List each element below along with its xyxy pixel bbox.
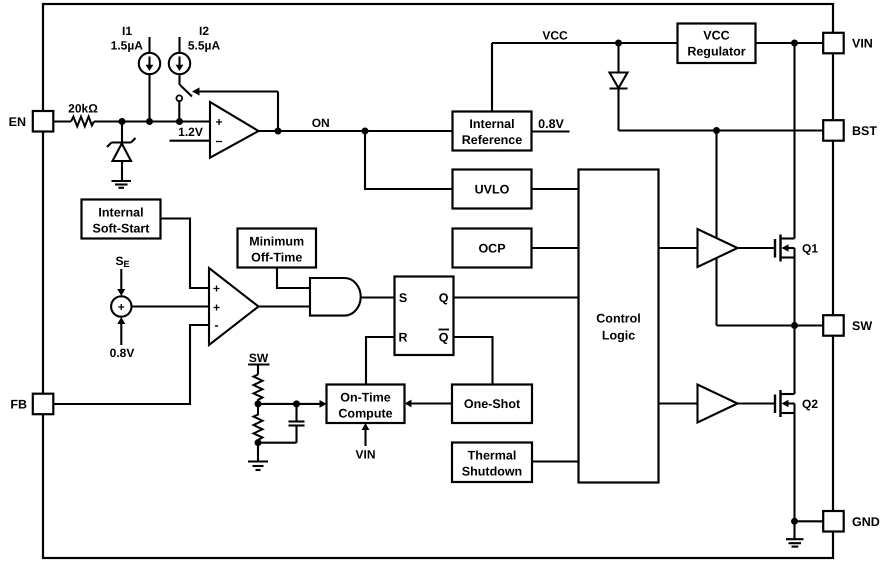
svg-text:+: + [213,301,220,315]
driver 1 [698,229,738,267]
svg-text:I2: I2 [199,24,209,38]
ground below zener [112,181,132,188]
svg-text:GND: GND [852,515,880,529]
svg-text:I1: I1 [122,24,132,38]
node VIN tap [791,40,798,47]
svg-text:Minimum: Minimum [249,235,304,249]
on-time compute box [327,385,405,424]
node divider bottom junction [255,439,262,446]
svg-text:Soft-Start: Soft-Start [93,222,151,236]
ground below Q2 [786,521,804,546]
wire latch Q to control logic [454,296,579,298]
resistor 20k [71,117,94,127]
wire BST net [619,129,825,131]
transistor Q1 [775,235,781,262]
wire 0.8V output stub [532,130,570,132]
wire control logic to driver 2 [659,402,698,404]
svg-text:Shutdown: Shutdown [462,465,522,479]
comparator EN (1.2V) [210,102,259,158]
resistor divider bottom [254,404,263,443]
svg-text:Q: Q [439,291,449,305]
driver 2 [698,385,738,423]
pin BST [823,120,877,141]
bootstrap diode [610,43,628,131]
pin FB [10,394,53,415]
wire VCC regulator to VIN pin [756,42,825,44]
capacitor ripple [258,404,305,443]
svg-text:BST: BST [852,124,877,138]
svg-text:5.5µA: 5.5µA [188,39,221,53]
summing junction [111,296,131,316]
wire soft-start to error amp [161,219,210,289]
node BST tap [713,127,720,134]
wire 0.8V arrow into summer [120,324,122,345]
pin VIN [823,33,873,54]
minimum off-time box [238,229,317,268]
wire 1.2V stub [170,140,211,142]
svg-text:One-Shot: One-Shot [464,397,521,411]
wire divider to cap [258,403,297,405]
control logic box [579,170,659,483]
node cap top [293,400,300,407]
OCP box [453,229,532,268]
node VCC diode tap [615,40,622,47]
svg-text:-: - [215,318,219,332]
wire summer to error amp [132,305,210,307]
svg-text:Thermal: Thermal [468,449,517,463]
transistor Q2 [775,390,781,417]
wire FB pin to error amp [53,325,210,404]
svg-text:VCC: VCC [703,29,729,43]
svg-text:SW: SW [852,319,872,333]
resistor divider top [254,375,263,405]
internal reference box [453,112,532,151]
node EN junction 2 [146,118,153,125]
pin EN [9,111,54,132]
svg-text:1.2V: 1.2V [178,125,203,139]
svg-text:S: S [399,291,407,305]
svg-text:EN: EN [9,115,26,129]
svg-text:1.5µA: 1.5µA [111,39,144,53]
wire divider to on-time compute arrow [297,403,321,405]
svg-text:+: + [213,282,220,296]
UVLO box [453,170,532,209]
node EN junction 3 [176,118,183,125]
wire AND to latch S [361,296,395,298]
node ON to UVLO [362,128,369,135]
wire control logic to driver 1 [659,247,698,249]
wire SW net [717,324,825,326]
svg-text:SW: SW [249,351,269,365]
wire GND net [795,520,824,522]
VCC regulator box [678,24,756,64]
wire UVLO to control logic [532,188,579,190]
svg-text:+: + [118,300,125,314]
wire internal reference to VCC [491,43,493,112]
wire latch R from on-time compute [366,337,395,385]
wire driver 1 to Q1 gate [738,247,776,249]
thermal shutdown box [452,443,532,483]
wire VIN arrow into on-time compute [364,429,366,446]
wire ON to UVLO [365,131,453,189]
switch on I2 [176,85,192,122]
error amp [209,268,259,345]
wire SW stub [257,365,259,375]
wire EN net: pin to comparator + input [53,120,211,122]
wire bootstrap rail BST to SW [715,131,717,326]
svg-text:OCP: OCP [478,242,505,256]
svg-text:Internal: Internal [98,206,143,220]
svg-text:ON: ON [312,116,330,130]
internal soft-start box [82,200,161,239]
svg-text:R: R [398,331,407,345]
current source I1 1.5uA [139,37,160,122]
node divider mid [255,400,262,407]
wire latch Qbar to one-shot [454,337,493,385]
svg-text:VCC: VCC [542,29,568,43]
node GND junction [791,518,798,525]
pin GND [823,511,880,532]
pin SW [823,315,872,336]
svg-text:20kΩ: 20kΩ [68,102,98,116]
AND gate [310,278,361,316]
wire OCP to control logic [532,247,579,249]
wire ON net [259,130,453,132]
svg-text:Regulator: Regulator [687,45,745,59]
svg-text:Off-Time: Off-Time [251,251,302,265]
svg-text:Logic: Logic [602,329,635,343]
svg-text:Reference: Reference [462,133,522,147]
svg-text:Internal: Internal [469,117,514,131]
svg-text:0.8V: 0.8V [538,117,564,131]
svg-text:Q: Q [439,331,449,345]
wire driver 2 to Q2 gate [738,402,776,404]
one-shot box [452,385,532,424]
svg-text:UVLO: UVLO [475,183,510,197]
current source I2 5.5uA [169,37,190,85]
wire SE arrow into summer [120,269,122,290]
svg-text:Compute: Compute [338,407,392,421]
svg-text:On-Time: On-Time [340,391,391,405]
wire VIN rail down to Q1 drain [793,43,795,239]
svg-text:Q2: Q2 [802,397,818,411]
zener diode on EN [107,122,136,182]
ground below divider [248,443,268,470]
node comparator output [275,128,282,135]
wire thermal shutdown to control logic [532,460,579,462]
wire error amp to AND gate [259,305,311,307]
svg-text:−: − [215,135,222,149]
svg-text:0.8V: 0.8V [110,346,135,360]
wire comparator feedback to switch [199,92,278,132]
wire one-shot to on-time compute arrow [411,402,452,404]
svg-text:VIN: VIN [355,448,375,462]
wire VCC net [492,42,678,44]
svg-text:FB: FB [10,398,27,412]
SR latch box [395,277,454,356]
wire min off-time to AND gate [277,268,310,289]
svg-text:VIN: VIN [852,37,873,51]
svg-text:Q1: Q1 [802,242,818,256]
svg-text:Control: Control [596,312,640,326]
node SW junction [791,322,798,329]
node EN junction 1 [119,118,126,125]
svg-text:+: + [215,115,222,129]
